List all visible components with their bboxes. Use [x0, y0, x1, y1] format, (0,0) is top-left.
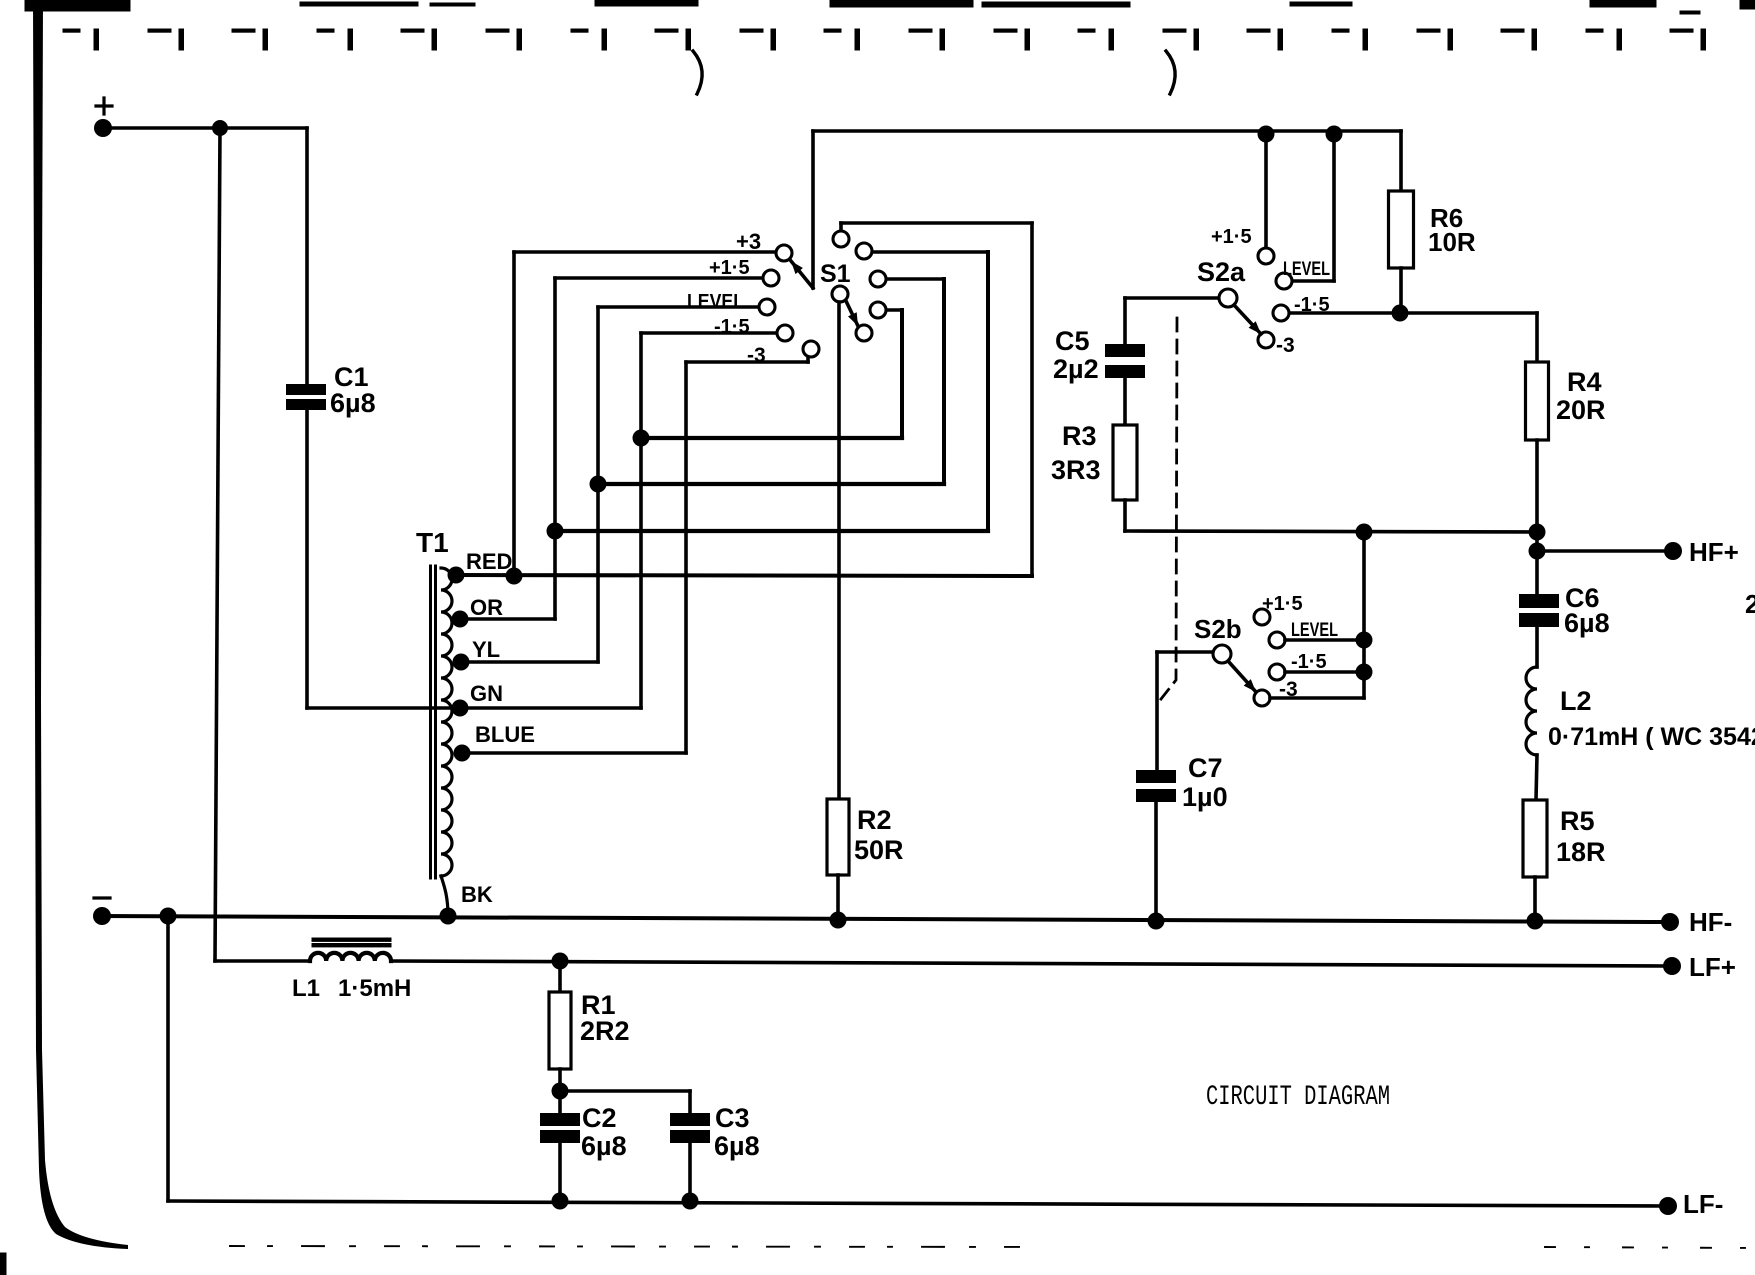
svg-text:R5: R5	[1560, 806, 1595, 836]
svg-text:C7: C7	[1188, 753, 1223, 783]
svg-text:6µ8: 6µ8	[1564, 608, 1610, 638]
svg-text:3R3: 3R3	[1051, 455, 1101, 485]
svg-text:-1·5: -1·5	[1291, 651, 1327, 673]
svg-text:LEVEL: LEVEL	[1283, 259, 1330, 280]
svg-text:-3: -3	[747, 344, 766, 367]
svg-text:LF+: LF+	[1689, 952, 1736, 982]
svg-text:L1: L1	[292, 975, 320, 1002]
svg-text:RED: RED	[466, 549, 512, 574]
svg-text:2: 2	[1745, 589, 1755, 619]
svg-text:S2b: S2b	[1194, 614, 1242, 644]
svg-text:S1: S1	[820, 260, 851, 288]
svg-text:+1·5: +1·5	[1262, 593, 1303, 615]
svg-text:CIRCUIT DIAGRAM: CIRCUIT DIAGRAM	[1206, 1082, 1390, 1113]
svg-text:C5: C5	[1055, 326, 1090, 356]
svg-text:50R: 50R	[854, 835, 904, 865]
svg-text:10R: 10R	[1428, 227, 1476, 257]
svg-text:L2: L2	[1560, 686, 1592, 716]
svg-text:+1·5: +1·5	[1211, 226, 1252, 248]
svg-text:OR: OR	[470, 595, 503, 620]
svg-text:LEVEL: LEVEL	[687, 291, 744, 313]
svg-text:6µ8: 6µ8	[581, 1131, 627, 1161]
svg-text:1µ0: 1µ0	[1182, 782, 1228, 812]
svg-text:1·5mH: 1·5mH	[338, 975, 411, 1002]
svg-text:R3: R3	[1062, 421, 1097, 451]
svg-text:20R: 20R	[1556, 395, 1606, 425]
svg-text:2R2: 2R2	[580, 1016, 630, 1046]
svg-text:S2a: S2a	[1197, 257, 1246, 287]
svg-text:LF-: LF-	[1683, 1189, 1723, 1219]
svg-text:LEVEL: LEVEL	[1291, 620, 1338, 641]
svg-text:18R: 18R	[1556, 837, 1606, 867]
svg-text:BK: BK	[461, 882, 493, 907]
svg-text:+3: +3	[736, 229, 761, 254]
svg-text:HF-: HF-	[1689, 907, 1732, 937]
svg-text:YL: YL	[472, 637, 500, 662]
svg-text:-1·5: -1·5	[714, 316, 750, 338]
svg-text:HF+: HF+	[1689, 537, 1739, 567]
svg-text:C3: C3	[715, 1103, 750, 1133]
svg-text:-1·5: -1·5	[1294, 294, 1330, 316]
svg-text:-3: -3	[1276, 334, 1295, 357]
svg-text:6µ8: 6µ8	[714, 1131, 760, 1161]
svg-text:0·71mH ( WC 3542: 0·71mH ( WC 3542	[1548, 723, 1755, 751]
svg-text:GN: GN	[470, 681, 503, 706]
svg-text:6µ8: 6µ8	[330, 388, 376, 418]
svg-text:-3: -3	[1279, 678, 1298, 701]
svg-text:C2: C2	[582, 1103, 617, 1133]
svg-text:2µ2: 2µ2	[1053, 354, 1099, 384]
svg-text:+1·5: +1·5	[709, 257, 750, 279]
svg-text:BLUE: BLUE	[475, 722, 535, 747]
svg-text:R2: R2	[857, 805, 892, 835]
svg-text:R4: R4	[1567, 367, 1602, 397]
svg-text:T1: T1	[416, 527, 449, 558]
